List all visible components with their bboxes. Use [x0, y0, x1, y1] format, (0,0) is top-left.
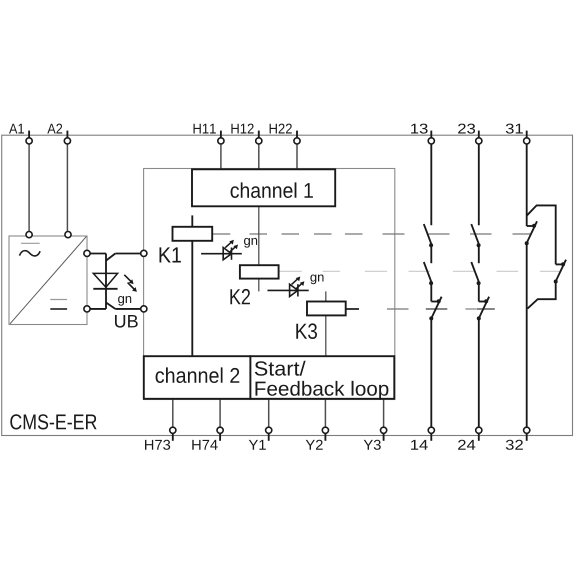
wire first contact to 32: [526, 243, 528, 427]
K2 actuation dashed link: [279, 270, 561, 272]
contact K3 13-14 pivot jog: [431, 301, 439, 303]
opto LED axis wire: [105, 254, 107, 309]
pivot dot contact K3 13-14: [437, 299, 441, 303]
psu output node minus: [84, 306, 90, 312]
wire feedback loop to Y2: [324, 399, 326, 427]
label channel 1: [231, 182, 313, 198]
label gn: [118, 296, 131, 306]
terminal 24: [476, 427, 482, 433]
tick terminal H22: [296, 131, 298, 139]
junction dot contact K3 13-14: [429, 316, 433, 320]
label Feedback loop: [256, 381, 389, 400]
label UB: [115, 315, 138, 328]
wire channel 1 to K2 coil: [258, 206, 260, 265]
wire K1 coil to channel 2: [191, 241, 193, 357]
wire A1 to power supply: [28, 144, 30, 232]
power supply unit U1: [9, 236, 87, 325]
label 23: [458, 124, 475, 134]
K2 indicator LED wire and symbol: [268, 284, 309, 296]
wire 31 to first contact: [526, 144, 528, 226]
K2 LED emission arrows: [292, 277, 305, 290]
wire third contact to 24: [478, 318, 480, 427]
label A2: [47, 124, 62, 134]
contact K1 31-32 pivot jog: [527, 225, 535, 227]
wire channel 2 to H74: [219, 399, 221, 427]
channel 2 block: [144, 356, 251, 399]
label CMS-E-ER: [10, 414, 96, 429]
wire channel 2 to H73: [172, 399, 174, 427]
label 31: [506, 124, 523, 134]
label H11: [194, 124, 216, 134]
opto LED D1 cathode bar: [93, 288, 117, 290]
contact K2 13-14 blade: [424, 262, 431, 282]
wire stub above K3 coil: [325, 291, 327, 301]
relay coil K1: [173, 227, 213, 241]
terminal H11: [218, 138, 224, 144]
label 32: [506, 440, 523, 450]
tick terminal H11: [220, 131, 222, 139]
contact K1 31-32 blade: [527, 221, 537, 243]
label H73: [145, 440, 170, 450]
opto LED D1 emission arrows: [124, 275, 137, 292]
K1 actuation dashed link: [213, 233, 531, 235]
contact K3 23-24 blade: [479, 297, 489, 319]
label gn: [244, 238, 257, 248]
label 13: [411, 124, 428, 134]
label Y1: [249, 440, 266, 450]
terminal H22: [294, 138, 300, 144]
tick terminal 24: [478, 433, 480, 441]
terminal 31: [524, 138, 530, 144]
K1 indicator LED wire and symbol: [201, 248, 242, 260]
tick terminal 23: [478, 131, 480, 139]
label H74: [192, 440, 217, 450]
contact K2 23-24 blade: [471, 262, 478, 282]
psu output node plus: [84, 250, 90, 256]
junction dot contact K3 23-24: [477, 316, 481, 320]
label K3: [296, 323, 317, 339]
label gn: [310, 275, 323, 285]
junction dot contact K2 23-24: [477, 281, 481, 285]
terminal Y3: [381, 427, 387, 433]
contact K3 23-24 pivot jog: [479, 301, 487, 303]
wire A2 to power supply: [66, 144, 68, 232]
tick terminal Y3: [383, 433, 385, 441]
pivot dot contact K3 23-24: [484, 299, 488, 303]
opto LED D1 triangle: [93, 273, 117, 287]
wire stub above K1 coil: [191, 215, 193, 226]
label channel 2: [156, 367, 240, 383]
kink wire anode to UB top: [106, 254, 115, 261]
wire K3 coil to feedback loop: [325, 315, 327, 356]
terminal A2: [64, 138, 70, 144]
contact K2 31-32 blade: [556, 260, 566, 282]
DC symbol: [50, 300, 67, 310]
label Y3: [364, 440, 381, 450]
terminal H74: [217, 427, 223, 433]
label 14: [411, 440, 428, 450]
label Y2: [306, 440, 323, 450]
junction dot contact K2 31-32: [554, 280, 558, 284]
wire feedback loop to Y3: [383, 399, 385, 427]
label Start/: [255, 361, 306, 376]
contact 23-24 NO seat bar: [477, 308, 495, 310]
terminal H12: [256, 138, 262, 144]
bypass branch wire 31-32: [527, 205, 556, 264]
terminal 32: [524, 427, 530, 433]
junction dot contact K1 23-24: [477, 243, 481, 247]
device node UB minus: [141, 306, 147, 312]
tick terminal 32: [526, 433, 528, 441]
label A1: [9, 124, 24, 134]
psu input node A2: [65, 232, 71, 238]
frame border: [2, 135, 573, 435]
contact K1 23-24 blade: [471, 224, 478, 244]
pivot dot contact K1 31-32: [532, 224, 536, 228]
label H12: [231, 124, 253, 134]
terminal A1: [26, 138, 32, 144]
wire H11 to channel 1: [220, 144, 222, 170]
wire to device UB top: [115, 253, 144, 255]
power supply diagonal: [10, 237, 86, 324]
terminal 14: [428, 427, 434, 433]
relay coil K3: [307, 302, 346, 316]
K1 LED emission arrows: [225, 240, 238, 253]
terminal Y1: [266, 427, 272, 433]
tick terminal A1: [28, 131, 30, 139]
tick terminal H74: [219, 433, 221, 441]
bypass return wire 31-32: [528, 281, 556, 308]
terminal Y2: [322, 427, 328, 433]
kink wire cathode to UB bottom: [106, 303, 115, 309]
channel 1 block: [192, 169, 335, 206]
contact K2 31-32 pivot jog: [556, 263, 564, 265]
wire K3 coil to dashed link: [346, 308, 359, 310]
contact K3 13-14 blade: [431, 297, 441, 319]
tick terminal H73: [172, 433, 174, 441]
tick terminal 31: [526, 131, 528, 139]
psu input node A1: [26, 232, 32, 238]
wire to third contact 13-14: [430, 283, 432, 301]
label K1: [160, 247, 181, 262]
wire between contacts 13-14: [430, 245, 432, 263]
tick terminal H12: [258, 131, 260, 139]
K3 actuation dashed link: [387, 308, 476, 310]
wire to device UB bottom: [115, 308, 144, 310]
tick terminal 14: [430, 433, 432, 441]
junction dot contact K2 13-14: [429, 281, 433, 285]
start/feedback loop block: [250, 356, 394, 399]
wire to third contact 23-24: [478, 283, 480, 301]
pivot dot contact K2 31-32: [561, 262, 565, 266]
wire H22 to channel 1: [296, 144, 298, 170]
wire psu to opto anode: [87, 253, 106, 255]
wire 23 to first contact: [478, 144, 480, 225]
wire 13 to first contact: [430, 144, 432, 225]
label H22: [270, 124, 292, 134]
label 24: [458, 440, 475, 450]
tick terminal 13: [430, 131, 432, 139]
junction dot contact K1 13-14: [429, 243, 433, 247]
wire third contact to 14: [430, 318, 432, 427]
tick terminal Y1: [268, 433, 270, 441]
device node UB plus: [141, 250, 147, 256]
contact K1 13-14 blade: [424, 224, 431, 244]
contact 13-14 NO seat bar: [426, 308, 448, 310]
wire H12 to channel 1: [258, 144, 260, 170]
label K2: [230, 289, 250, 304]
tick terminal Y2: [324, 433, 326, 441]
tick terminal A2: [66, 131, 68, 139]
device outline box CMS-E-ER: [144, 169, 395, 400]
wire stub below K2 coil: [258, 279, 260, 292]
wire psu to opto cathode: [87, 308, 106, 310]
terminal 13: [428, 138, 434, 144]
wire between contacts 23-24: [478, 245, 480, 263]
junction dot contact K1 31-32: [525, 241, 529, 245]
terminal 23: [476, 138, 482, 144]
wire feedback loop to Y1: [268, 399, 270, 427]
relay coil K2: [240, 265, 279, 278]
terminal H73: [170, 427, 176, 433]
AC symbol: [20, 243, 41, 256]
